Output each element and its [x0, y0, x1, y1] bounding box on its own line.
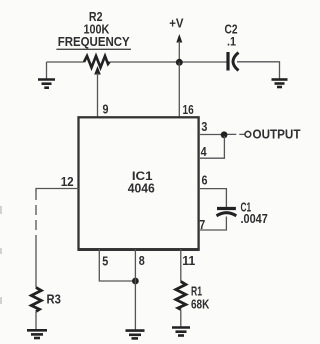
svg-text:.0047: .0047	[241, 211, 268, 226]
ground (bottom right under R1)	[172, 328, 190, 336]
svg-text:7: 7	[199, 217, 205, 232]
pin 7 wire	[199, 217, 227, 231]
wire R1 to ground	[180, 310, 182, 328]
wire top rail right segment to ground	[237, 62, 280, 79]
capacitor C1	[217, 200, 268, 227]
wire top rail left segment	[47, 61, 85, 63]
svg-text:16: 16	[183, 102, 194, 117]
wire top rail middle segment	[110, 61, 227, 63]
wiper arrow of R2	[94, 66, 101, 117]
+V supply arrow	[169, 15, 183, 62]
svg-text:9: 9	[103, 102, 109, 117]
op IC1 4046 box	[79, 117, 199, 249]
ground (top left)	[38, 62, 55, 88]
node junction at +V	[176, 59, 183, 66]
svg-text:4046: 4046	[128, 180, 155, 195]
resistor R2 (potentiometer body)	[84, 56, 110, 68]
pin 5 wire	[99, 249, 135, 281]
pin 12 wire	[36, 189, 79, 192]
ground (bottom middle under pin 8)	[126, 331, 145, 339]
svg-text:6: 6	[202, 173, 208, 188]
svg-text:FREQUENCY: FREQUENCY	[58, 34, 130, 49]
wire R3 to ground	[35, 312, 37, 331]
svg-text:8: 8	[139, 253, 145, 268]
svg-text:3: 3	[201, 119, 207, 134]
svg-text:4: 4	[201, 144, 208, 159]
ground (bottom left under R3)	[27, 330, 47, 338]
ground (top right)	[272, 80, 288, 88]
svg-text:68K: 68K	[191, 297, 210, 312]
wire to output terminal	[228, 133, 245, 135]
svg-text:.1: .1	[227, 34, 236, 48]
svg-text:12: 12	[61, 174, 74, 189]
svg-text:+V: +V	[169, 15, 183, 30]
capacitor C2	[225, 22, 239, 71]
output terminal circle	[245, 131, 251, 137]
svg-text:R3: R3	[47, 292, 61, 307]
wire dashed drop from pin 12	[35, 190, 37, 242]
FREQUENCY underline	[56, 48, 131, 50]
svg-text:11: 11	[182, 253, 195, 268]
pin 6 wire	[199, 189, 227, 208]
node junction pin3/pin4	[221, 131, 228, 138]
resistor R3	[31, 288, 41, 312]
svg-text:5: 5	[102, 254, 108, 269]
pin 4 wire	[199, 136, 225, 158]
resistor R1	[176, 282, 186, 310]
pin 11 wire	[180, 249, 182, 282]
pin 8 wire	[134, 249, 136, 330]
wire pin 16 drop	[178, 63, 180, 118]
svg-text:OUTPUT: OUTPUT	[253, 127, 301, 142]
scan marks left edge	[0, 206, 2, 304]
node junction pin5/pin8	[132, 278, 139, 285]
pin 3 wire	[199, 134, 225, 136]
wire solid to R3	[35, 242, 37, 288]
